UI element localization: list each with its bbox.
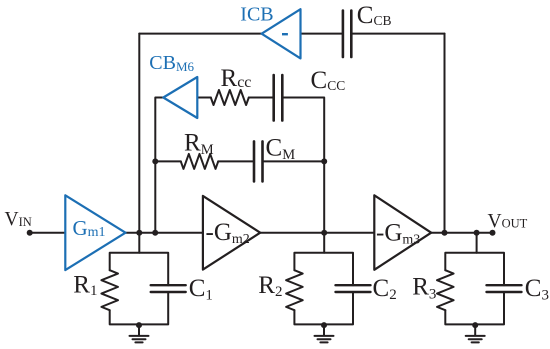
node main 4 bbox=[442, 230, 448, 236]
wire load2 drop bbox=[323, 233, 325, 253]
resistor RM bbox=[181, 154, 218, 169]
wire load1 drop bbox=[138, 233, 140, 253]
node gnd1 bbox=[136, 322, 142, 328]
wire top right bbox=[353, 33, 445, 35]
node gnd3 bbox=[472, 322, 478, 328]
node main 3 bbox=[321, 230, 327, 236]
capacitor CCC bbox=[274, 75, 283, 121]
wire RM row left bbox=[155, 160, 181, 162]
wire CM to right node bbox=[264, 160, 324, 162]
wire Rcc to Ccc bbox=[249, 97, 273, 99]
node main 2 bbox=[152, 230, 158, 236]
wire Gm1 out bbox=[126, 232, 203, 234]
wire CB base to Rcc bbox=[197, 97, 211, 99]
ground 1 bbox=[130, 324, 149, 342]
wire Gm2 out bbox=[260, 232, 374, 234]
svg-text:ICB: ICB bbox=[240, 4, 273, 26]
node RM left bbox=[152, 158, 158, 164]
capacitor C1 bbox=[151, 285, 186, 292]
wire Gm3 out to VOUT bbox=[431, 232, 492, 234]
op-amp Gm3 bbox=[374, 195, 431, 269]
op-amp Gm2 bbox=[203, 196, 260, 270]
ground 2 bbox=[315, 324, 334, 342]
ground 3 bbox=[466, 324, 485, 342]
op-amp ICB bbox=[262, 9, 301, 58]
load3 loop wires bbox=[445, 253, 504, 286]
node main 5 bbox=[474, 230, 480, 236]
node VOUT terminal bbox=[490, 230, 496, 236]
node main 1 bbox=[136, 230, 142, 236]
op-amp Gm1 bbox=[65, 195, 125, 270]
wire top mid bbox=[300, 33, 342, 35]
node RM right bbox=[321, 158, 327, 164]
wire RM to CM bbox=[218, 160, 253, 162]
minus in ICB bbox=[282, 33, 288, 35]
wire Ccc right to node bbox=[284, 98, 325, 233]
wire CB apex to left bbox=[155, 98, 163, 233]
wire right vertical bbox=[444, 34, 446, 233]
wire top left bbox=[139, 33, 261, 35]
resistor Rcc bbox=[211, 90, 249, 105]
capacitor C2 bbox=[336, 285, 371, 292]
node VIN terminal bbox=[27, 230, 33, 236]
resistor R2 bbox=[286, 270, 303, 310]
capacitor C3 bbox=[487, 285, 522, 292]
wire left vertical bbox=[138, 34, 140, 233]
node gnd2 bbox=[321, 322, 327, 328]
wire load3 drop bbox=[476, 233, 478, 253]
load1 loop wires bbox=[110, 253, 169, 286]
capacitor CM bbox=[254, 141, 263, 181]
op-amp CBM6 bbox=[163, 77, 197, 118]
resistor R3 bbox=[437, 270, 454, 310]
load2 loop wires bbox=[294, 253, 353, 286]
capacitor CCB bbox=[343, 11, 351, 58]
resistor R1 bbox=[101, 270, 118, 310]
wire VIN to Gm1 bbox=[30, 232, 66, 234]
